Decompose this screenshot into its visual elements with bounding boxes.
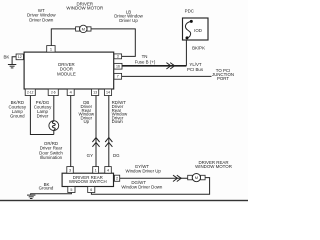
svg-text:Ground: Ground xyxy=(39,186,54,191)
svg-text:4: 4 xyxy=(107,168,109,172)
svg-text:Driver Down: Driver Down xyxy=(29,17,54,22)
svg-text:13: 13 xyxy=(93,91,97,95)
svg-text:IOD: IOD xyxy=(194,28,202,33)
svg-text:PORT: PORT xyxy=(217,76,229,81)
svg-text:Up: Up xyxy=(83,119,89,124)
svg-text:16: 16 xyxy=(116,65,120,69)
svg-text:Window Driver Down: Window Driver Down xyxy=(121,184,163,189)
svg-text:Illumination: Illumination xyxy=(40,155,63,160)
svg-text:14: 14 xyxy=(106,91,110,95)
svg-text:4: 4 xyxy=(70,91,72,95)
svg-text:PDC: PDC xyxy=(185,9,194,14)
svg-text:7: 7 xyxy=(117,75,119,79)
svg-text:Window Driver Up: Window Driver Up xyxy=(126,168,162,173)
svg-text:PCI Bus: PCI Bus xyxy=(187,67,204,72)
svg-text:M: M xyxy=(195,175,198,180)
svg-text:GY: GY xyxy=(87,153,93,158)
svg-text:2-12: 2-12 xyxy=(27,90,34,94)
svg-text:BK: BK xyxy=(4,54,10,59)
svg-text:Ground: Ground xyxy=(10,114,25,119)
svg-text:TN: TN xyxy=(142,54,148,59)
svg-text:12: 12 xyxy=(18,55,22,59)
svg-text:1: 1 xyxy=(50,46,52,51)
svg-text:Driver Up: Driver Up xyxy=(119,18,138,23)
svg-text:BK/PK: BK/PK xyxy=(192,46,205,51)
svg-text:5: 5 xyxy=(70,188,72,192)
svg-text:M: M xyxy=(82,26,85,31)
svg-text:MODULE: MODULE xyxy=(57,71,76,76)
svg-text:6: 6 xyxy=(90,188,92,192)
svg-text:Fuse B (+): Fuse B (+) xyxy=(135,60,156,65)
svg-text:2: 2 xyxy=(116,177,118,181)
svg-text:3: 3 xyxy=(69,168,71,172)
svg-text:Down: Down xyxy=(112,119,124,124)
svg-text:DG: DG xyxy=(113,153,120,158)
svg-text:2-6: 2-6 xyxy=(51,90,56,94)
svg-text:WINDOW SWITCH: WINDOW SWITCH xyxy=(69,179,107,184)
svg-text:3: 3 xyxy=(117,55,119,59)
svg-text:WINDOW MOTOR: WINDOW MOTOR xyxy=(66,6,103,11)
svg-text:WINDOW MOTOR: WINDOW MOTOR xyxy=(195,164,232,169)
svg-text:Driver: Driver xyxy=(37,114,49,119)
svg-text:1: 1 xyxy=(95,168,97,172)
